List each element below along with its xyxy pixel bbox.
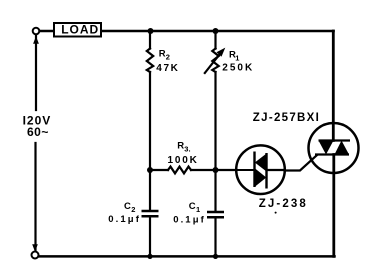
svg-text:ZJ-238: ZJ-238: [259, 198, 308, 210]
svg-text:C: C: [189, 201, 196, 212]
svg-text:C: C: [124, 201, 131, 212]
svg-text:47K: 47K: [156, 63, 179, 74]
svg-text:100K: 100K: [168, 155, 199, 166]
svg-text:1: 1: [235, 54, 239, 63]
svg-text:0.1μf: 0.1μf: [108, 214, 141, 225]
svg-text:1: 1: [196, 205, 200, 214]
svg-text:60~: 60~: [27, 125, 49, 139]
svg-text:2: 2: [166, 53, 170, 62]
svg-text:R: R: [177, 140, 184, 151]
svg-text:3.: 3.: [184, 145, 190, 154]
svg-text:2: 2: [131, 205, 135, 214]
svg-text:LOAD: LOAD: [61, 23, 99, 37]
svg-text:0.1μf: 0.1μf: [173, 214, 206, 225]
svg-text:250K: 250K: [222, 63, 254, 74]
svg-text:ZJ-257BXI: ZJ-257BXI: [253, 112, 320, 124]
